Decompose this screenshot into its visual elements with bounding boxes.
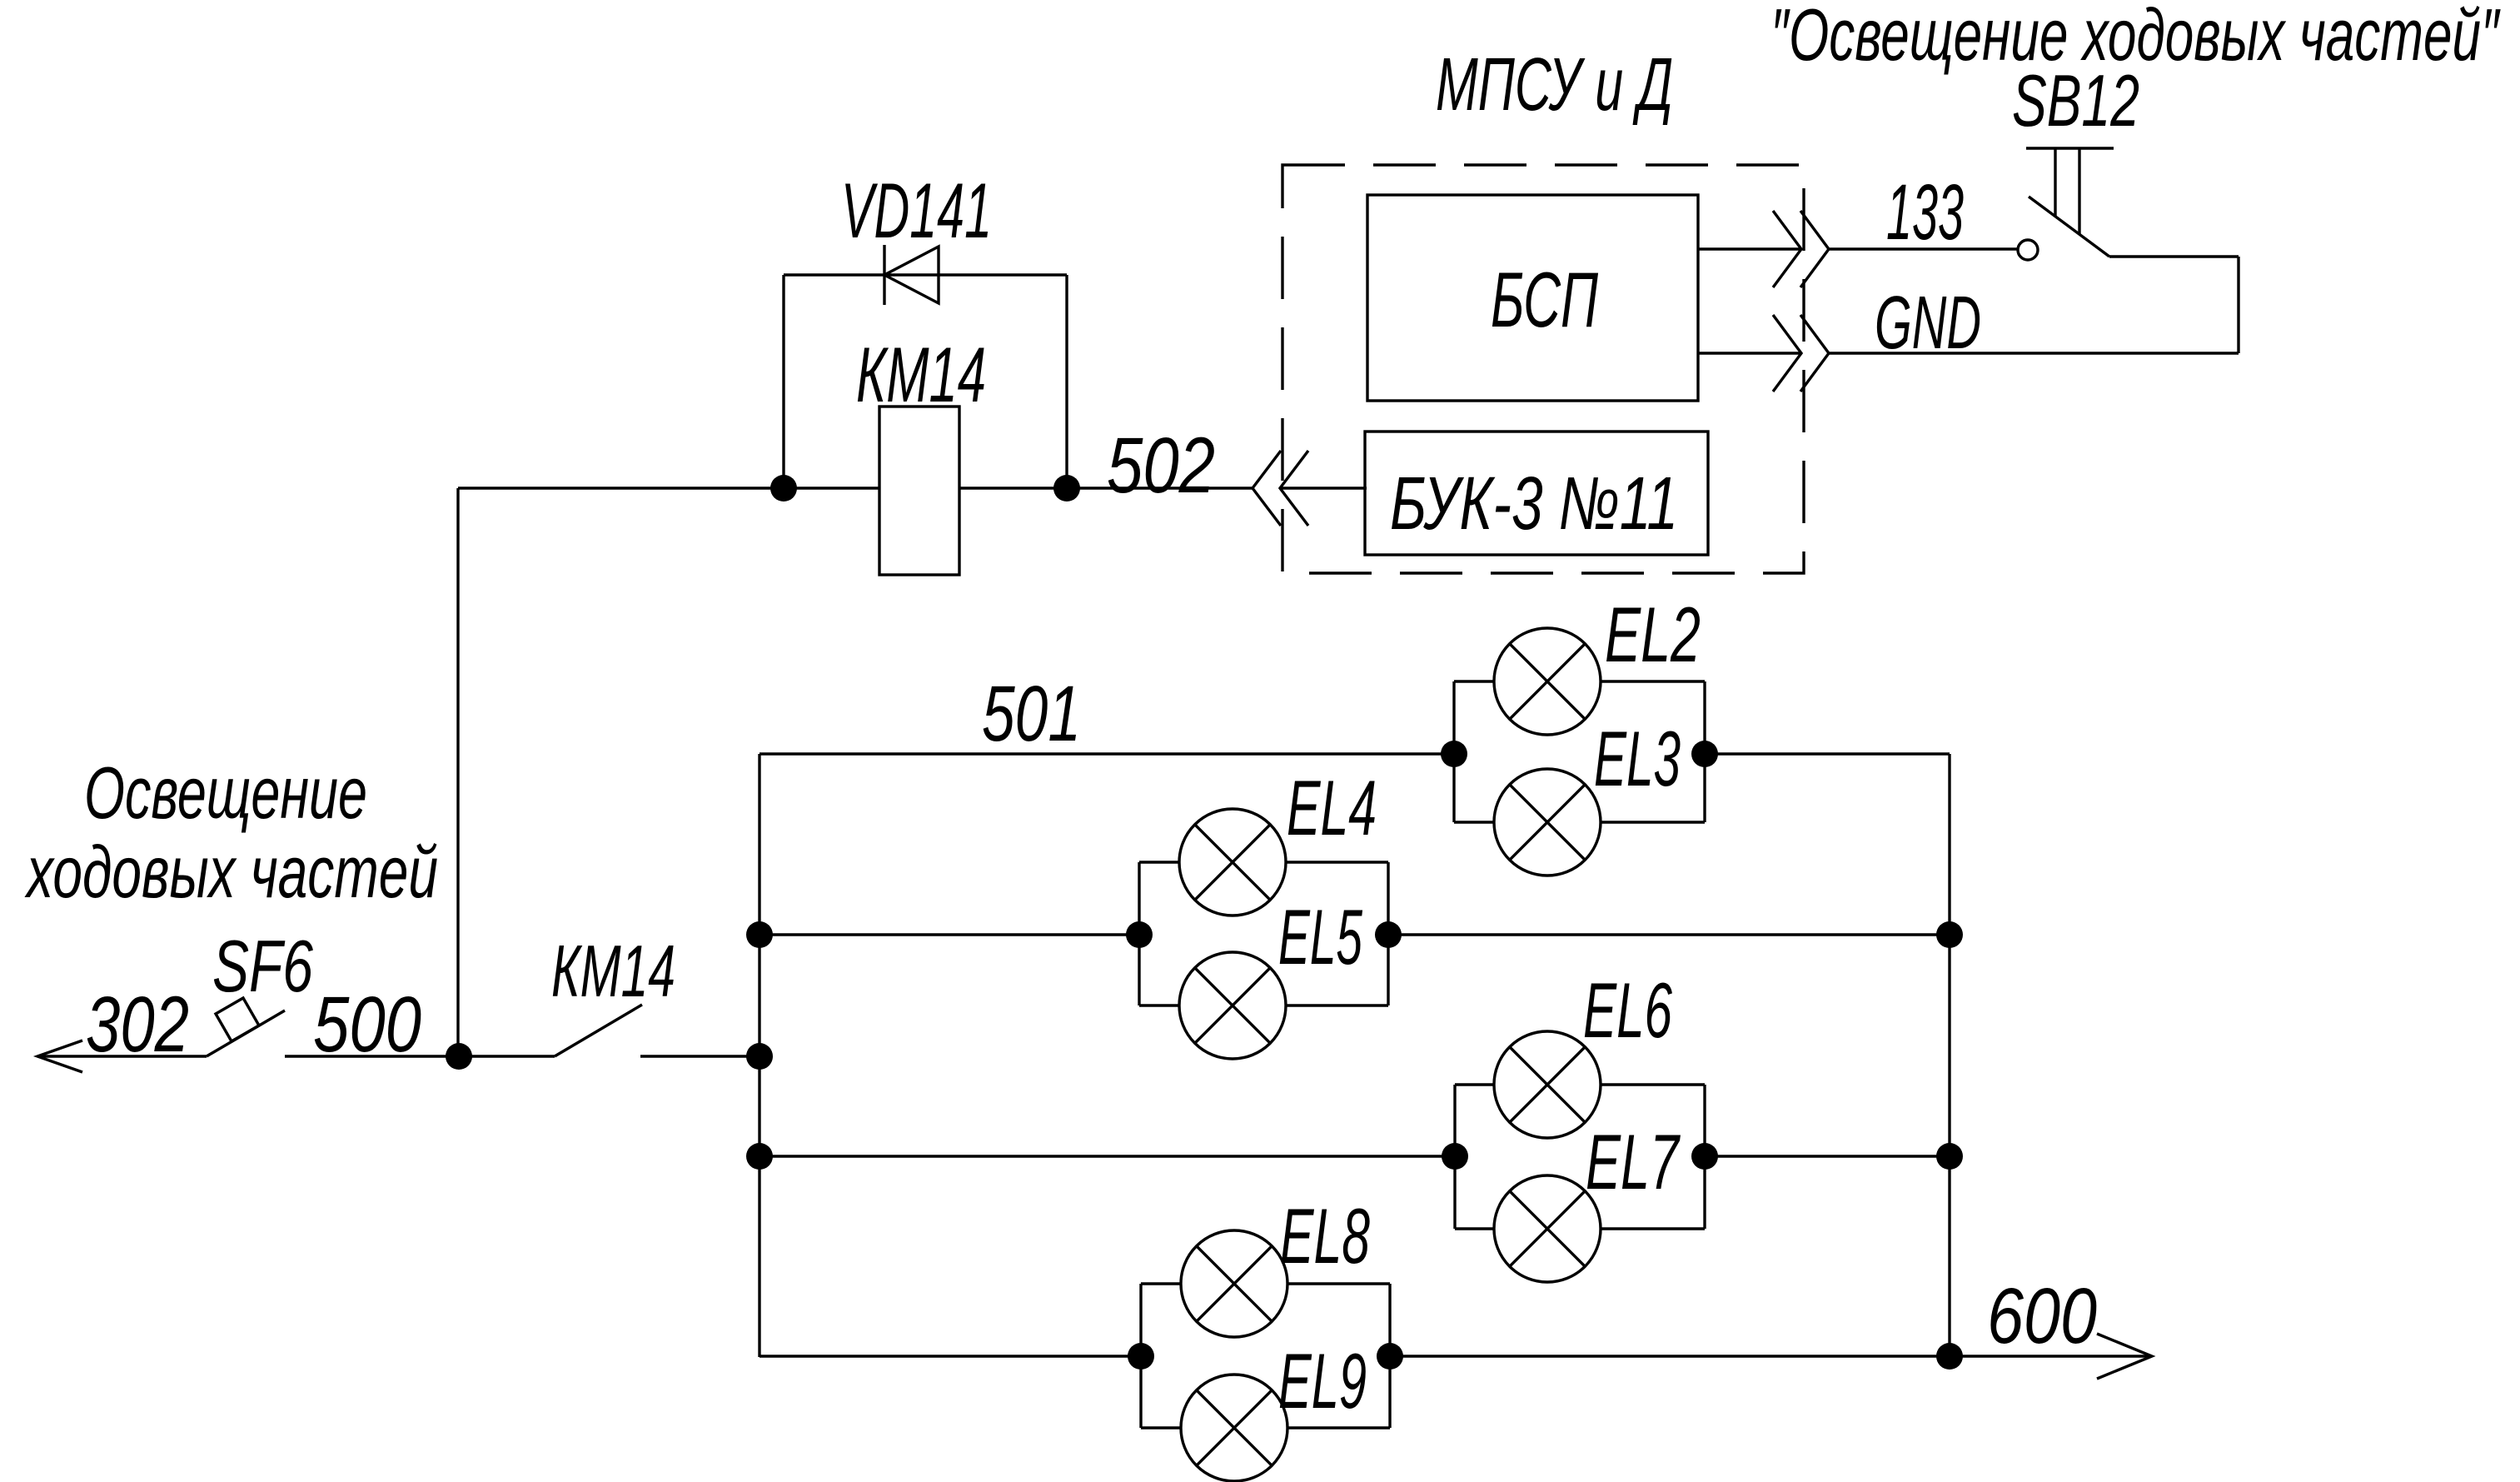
svg-text:600: 600 [1987,1272,2097,1360]
svg-text:БУК-3 №11: БУК-3 №11 [1390,462,1678,546]
svg-text:МПСУ и Д: МПСУ и Д [1436,43,1673,127]
svg-text:КМ14: КМ14 [551,930,675,1012]
svg-text:EL6: EL6 [1583,966,1672,1054]
svg-text:GND: GND [1875,282,1981,365]
svg-text:501: 501 [982,670,1081,758]
svg-text:500: 500 [313,981,421,1069]
svg-text:БСП: БСП [1491,256,1599,343]
svg-text:502: 502 [1107,422,1215,510]
svg-text:ходовых частей: ходовых частей [24,831,438,913]
svg-text:EL5: EL5 [1278,893,1362,981]
svg-text:EL7: EL7 [1586,1118,1681,1205]
svg-text:VD141: VD141 [841,167,992,254]
svg-text:Освещение: Освещение [84,751,367,834]
svg-text:133: 133 [1886,168,1964,257]
svg-text:EL4: EL4 [1287,764,1377,851]
svg-text:КМ14: КМ14 [856,331,986,418]
svg-text:302: 302 [86,981,189,1069]
svg-text:EL9: EL9 [1278,1337,1367,1425]
svg-text:EL2: EL2 [1605,591,1701,678]
svg-text:SF6: SF6 [212,925,313,1007]
svg-text:EL8: EL8 [1280,1192,1370,1280]
svg-text:SB12: SB12 [2012,59,2139,142]
svg-text:EL3: EL3 [1594,715,1681,802]
